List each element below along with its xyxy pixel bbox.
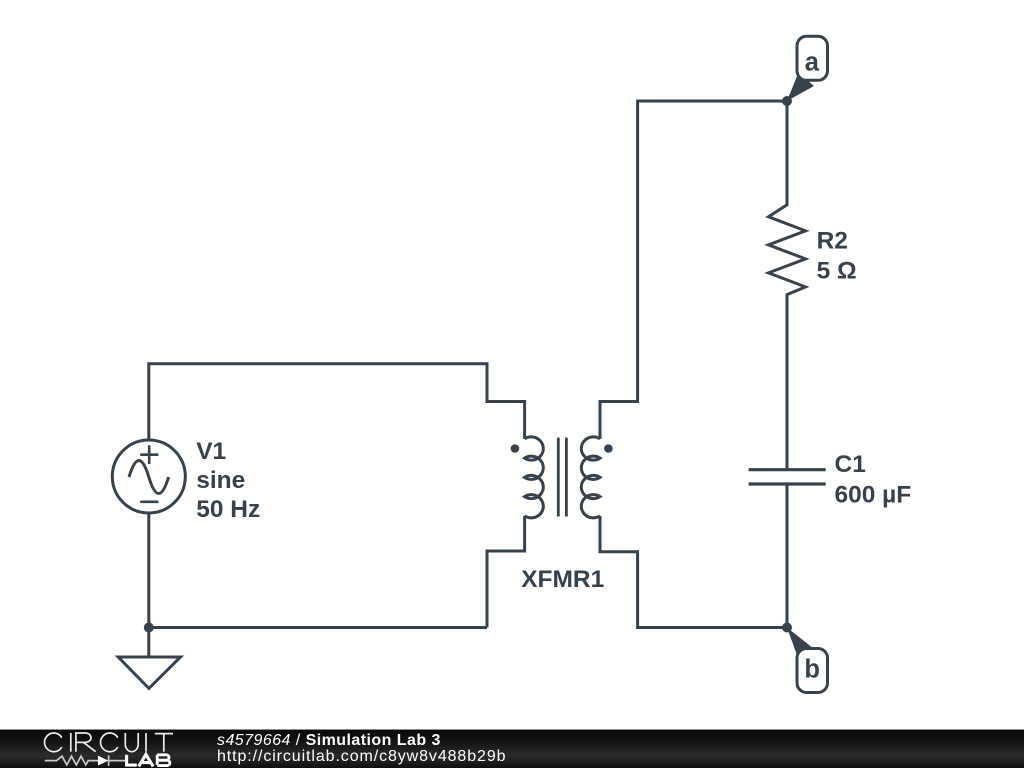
svg-text:600 µF: 600 µF <box>835 482 912 509</box>
svg-text:C1: C1 <box>835 451 866 478</box>
svg-text:sine: sine <box>196 467 245 494</box>
svg-text:5 Ω: 5 Ω <box>817 257 857 284</box>
svg-text:b: b <box>804 656 820 684</box>
svg-text:XFMR1: XFMR1 <box>521 566 604 593</box>
svg-text:R2: R2 <box>817 228 848 255</box>
svg-text:a: a <box>805 49 820 77</box>
svg-text:V1: V1 <box>196 438 226 465</box>
svg-text:50 Hz: 50 Hz <box>196 496 260 523</box>
